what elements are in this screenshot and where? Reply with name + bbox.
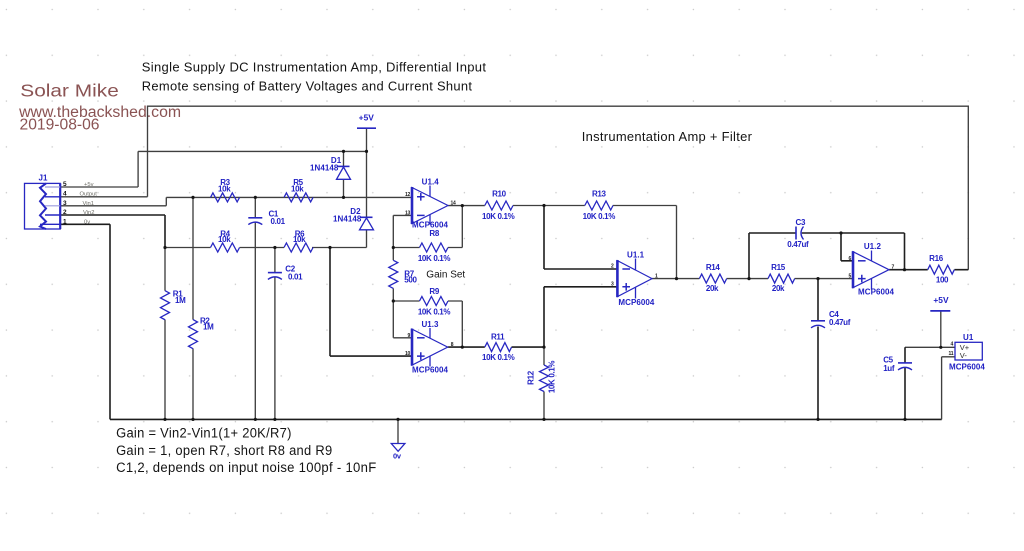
wire R7 leads <box>392 248 394 302</box>
junction node (818,278.6) <box>816 277 819 280</box>
junction node (940.8,347.3) <box>939 346 942 349</box>
pin numbers U1.4 <box>405 192 456 217</box>
junction node (274.9,419.4) <box>273 418 276 421</box>
+5V symbol right <box>930 310 950 312</box>
svg-text:Vin1: Vin1 <box>83 201 95 207</box>
resistor R1 <box>161 291 170 320</box>
wire +5V stem top <box>366 128 368 151</box>
resistor R5 <box>284 193 313 202</box>
wire +5V right stem <box>940 311 942 347</box>
svg-text:Instrumentation Amp + Filter: Instrumentation Amp + Filter <box>582 129 753 144</box>
op-amp U1.2 <box>853 251 889 290</box>
resistor R6 <box>284 243 313 252</box>
svg-text:U1.3: U1.3 <box>421 320 439 329</box>
pin numbers U1.3 <box>405 333 454 357</box>
svg-text:0v: 0v <box>393 452 402 461</box>
connector J1 <box>25 183 61 229</box>
svg-text:+5V: +5V <box>359 112 375 122</box>
wire U1.1 output row <box>652 278 853 280</box>
svg-text:R16: R16 <box>929 254 944 263</box>
wire U1.3 pin10 feed <box>330 248 412 357</box>
wire U1.3 pin9 <box>393 301 412 338</box>
pin numbers J1 <box>63 181 67 225</box>
svg-text:10K 0.1%: 10K 0.1% <box>418 254 451 263</box>
capacitor C3 <box>796 227 804 240</box>
wire C1 leads <box>254 197 256 419</box>
svg-text:10K 0.1%: 10K 0.1% <box>482 353 515 362</box>
wire U1.4 pin13 to R8 node <box>393 215 412 247</box>
svg-text:0.01: 0.01 <box>271 217 286 226</box>
junction node (818,419.4) <box>816 418 819 421</box>
resistor R2 <box>189 320 198 349</box>
capacitor C2 <box>268 273 282 280</box>
svg-text:U1.4: U1.4 <box>422 178 440 187</box>
resistor R16 <box>928 265 955 274</box>
+5V symbol top <box>357 127 376 129</box>
svg-text:R14: R14 <box>706 263 721 272</box>
junction node (676.5,278.6) <box>675 277 678 280</box>
svg-text:2019-08-06: 2019-08-06 <box>20 116 100 133</box>
svg-text:10k: 10k <box>218 184 231 193</box>
wire R8 row <box>393 206 462 248</box>
wire ground rail <box>110 418 942 420</box>
junction node (343.5,197.4) <box>342 196 345 199</box>
junction node (905,419.4) <box>903 418 906 421</box>
pin numbers U1.2 <box>849 256 895 280</box>
svg-text:10K 0.1%: 10K 0.1% <box>548 361 557 394</box>
svg-text:4: 4 <box>63 191 67 198</box>
resistor R13 <box>585 201 613 210</box>
wire R9 row <box>393 301 462 347</box>
wire ground stem <box>397 419 399 443</box>
svg-text:100: 100 <box>936 275 949 284</box>
junction node (544,347.1) <box>542 346 545 349</box>
svg-text:Output: Output <box>80 192 98 198</box>
resistor R10 <box>485 201 513 210</box>
svg-text:0v: 0v <box>84 220 90 226</box>
svg-text:10k: 10k <box>291 184 304 193</box>
wire R1 leads <box>164 248 166 420</box>
wire C2 leads <box>274 248 276 420</box>
resistor R4 <box>211 243 240 252</box>
junction node (330,247.5) <box>328 246 331 249</box>
junction node (255.3,419.4) <box>254 418 257 421</box>
junction node (462.3,205.6) <box>461 204 464 207</box>
wire U1.2 pin6 branch <box>841 233 853 261</box>
svg-text:11: 11 <box>949 351 954 357</box>
pin numbers U1 <box>949 342 954 357</box>
junction node (366.5,151.4) <box>365 150 368 153</box>
wire D1 stems <box>343 151 345 197</box>
svg-text:Gain = Vin2-Vin1(1+ 20K/R7): Gain = Vin2-Vin1(1+ 20K/R7) <box>116 426 292 441</box>
svg-text:20k: 20k <box>772 284 785 293</box>
svg-text:V-: V- <box>960 351 968 360</box>
diode D2 <box>360 217 374 230</box>
svg-text:20k: 20k <box>706 284 719 293</box>
svg-text:Remote sensing of Battery Volt: Remote sensing of Battery Voltages and C… <box>142 80 473 94</box>
svg-text:MCP6004: MCP6004 <box>618 298 654 307</box>
junction node (343.5,151.4) <box>342 150 345 153</box>
junction node (544,205.5) <box>542 204 545 207</box>
op-amp U1.4 <box>412 186 448 225</box>
svg-text:R10: R10 <box>492 189 507 198</box>
resistor R7 <box>389 260 398 288</box>
svg-text:1M: 1M <box>203 323 214 332</box>
wire C5 leads <box>904 347 906 419</box>
wire C3 feedback loop <box>749 233 905 279</box>
resistor R11 <box>485 343 512 352</box>
ground symbol <box>391 444 405 452</box>
wire C4 leads <box>817 279 819 420</box>
wire R2 leads <box>192 197 194 419</box>
power part U1 box <box>955 342 982 360</box>
svg-text:1N4148: 1N4148 <box>333 214 362 223</box>
svg-text:500: 500 <box>404 276 417 285</box>
svg-text:10K 0.1%: 10K 0.1% <box>482 212 515 221</box>
capacitor C5 <box>898 363 912 370</box>
wire D2 bottom stem <box>366 230 368 248</box>
svg-text:+5V: +5V <box>933 295 949 305</box>
svg-text:Vin2: Vin2 <box>83 210 95 216</box>
resistor R9 <box>420 297 449 306</box>
resistor R12 <box>540 365 549 392</box>
svg-text:10k: 10k <box>293 235 306 244</box>
wire J1.3 Vin1 row and row1 <box>61 197 412 205</box>
author block <box>18 81 181 134</box>
junction node (193,197.4) <box>191 196 194 199</box>
svg-text:1: 1 <box>63 219 67 226</box>
svg-text:C3: C3 <box>796 218 806 227</box>
junction node (193,419.4) <box>191 418 194 421</box>
svg-text:0.47uf: 0.47uf <box>787 240 809 249</box>
junction node (165,419.4) <box>163 418 166 421</box>
svg-text:0.01: 0.01 <box>288 272 303 281</box>
wire output net: J1.4 up and across top to R16 right <box>148 106 969 270</box>
svg-text:R11: R11 <box>491 332 505 341</box>
svg-text:Gain = 1, open R7, short R8 an: Gain = 1, open R7, short R8 and R9 <box>116 443 332 458</box>
svg-text:MCP6004: MCP6004 <box>949 362 985 371</box>
svg-text:1uf: 1uf <box>883 364 895 373</box>
title text block <box>142 61 487 94</box>
svg-text:0.47uf: 0.47uf <box>829 318 851 327</box>
svg-text:12: 12 <box>405 192 410 198</box>
svg-text:R15: R15 <box>771 263 786 272</box>
svg-text:10K 0.1%: 10K 0.1% <box>583 212 616 221</box>
svg-text:R13: R13 <box>592 189 607 198</box>
resistor R14 <box>699 274 726 283</box>
junction node (165,247.5) <box>163 246 166 249</box>
svg-text:10K 0.1%: 10K 0.1% <box>418 308 451 317</box>
wire V+ row <box>905 346 955 348</box>
junction node (544,419.4) <box>542 418 545 421</box>
svg-text:R12: R12 <box>527 370 536 385</box>
notes block <box>116 426 376 476</box>
svg-text:14: 14 <box>451 200 456 206</box>
junction node (393.3,247.5) <box>392 246 395 249</box>
svg-text:Solar Mike: Solar Mike <box>20 81 119 101</box>
svg-text:MCP6004: MCP6004 <box>858 287 894 296</box>
wire +5v net from J1.5 <box>61 151 367 187</box>
junction node (462.3,347.1) <box>461 346 464 349</box>
wire V- down <box>942 357 955 420</box>
resistor R8 <box>420 243 449 252</box>
svg-text:Gain Set: Gain Set <box>426 270 465 281</box>
net names J1 <box>80 182 98 225</box>
junction node (841,233) <box>839 231 842 234</box>
wire U1.4 output row to R10 and R13 <box>448 206 677 279</box>
resistor R15 <box>768 274 795 283</box>
labels U1 power part <box>949 333 985 371</box>
diode D1 <box>337 166 351 179</box>
op-amp U1.1 <box>617 259 652 299</box>
svg-text:+5v: +5v <box>84 182 94 188</box>
junction node (274.9,247.5) <box>273 246 276 249</box>
svg-text:MCP6004: MCP6004 <box>412 365 448 374</box>
wire U1.1 pin2 <box>544 206 617 270</box>
wire R12 leads <box>543 347 545 419</box>
svg-text:R9: R9 <box>429 287 439 296</box>
svg-text:Single Supply DC Instrumentati: Single Supply DC Instrumentation Amp, Di… <box>142 61 487 75</box>
svg-text:J1: J1 <box>39 174 48 183</box>
svg-text:10k: 10k <box>218 235 231 244</box>
junction node (255.3,197.4) <box>254 196 257 199</box>
wire J1.1 0v down <box>61 224 110 419</box>
junction node (904.5,269.7) <box>903 268 906 271</box>
capacitor C4 <box>811 321 825 328</box>
resistor R3 <box>211 193 240 202</box>
svg-text:U1.1: U1.1 <box>627 250 645 259</box>
op-amp U1.3 <box>412 328 448 367</box>
wire U1.1 pin3 <box>544 287 617 347</box>
wire J1.4 output row <box>61 196 148 198</box>
svg-text:10: 10 <box>405 351 410 357</box>
svg-text:MCP6004: MCP6004 <box>412 220 448 229</box>
junction node (398,419.4) <box>396 418 399 421</box>
svg-text:C1,2, depends on input noise 1: C1,2, depends on input noise 100pf - 10n… <box>116 460 376 475</box>
svg-text:U1.2: U1.2 <box>864 242 882 251</box>
junction node (393.3,301) <box>392 299 395 302</box>
wire U1.2 output to R16 <box>889 269 968 271</box>
wire +5V rail down to D2 <box>366 151 368 217</box>
svg-text:1N4148: 1N4148 <box>310 163 339 172</box>
pin numbers U1.1 <box>611 264 658 288</box>
svg-text:U1: U1 <box>963 333 974 342</box>
svg-text:3: 3 <box>63 200 67 207</box>
svg-text:1M: 1M <box>175 296 186 305</box>
wire J1.2 Vin2 row and row2 <box>61 215 165 248</box>
junction node (749,278.6) <box>747 277 750 280</box>
svg-text:13: 13 <box>405 210 410 216</box>
wire U1.3 output row R11 <box>448 346 544 348</box>
capacitor C1 <box>248 218 262 225</box>
svg-text:5: 5 <box>63 181 67 188</box>
svg-text:R8: R8 <box>429 229 439 238</box>
svg-text:2: 2 <box>63 209 67 216</box>
